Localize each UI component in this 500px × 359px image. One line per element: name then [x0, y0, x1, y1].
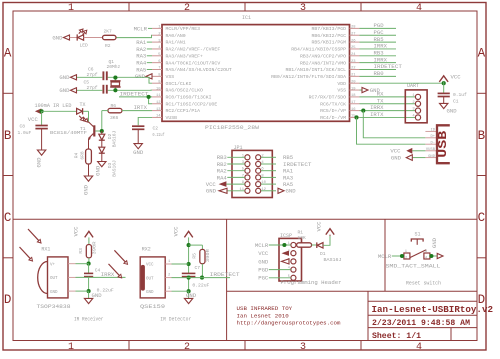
svg-text:TSOP34838: TSOP34838 — [37, 304, 71, 310]
svg-text:28: 28 — [351, 26, 356, 30]
svg-text:2: 2 — [184, 342, 190, 353]
svg-text:RX1: RX1 — [41, 246, 50, 252]
svg-text:RC6/TX/CK: RC6/TX/CK — [320, 101, 346, 107]
svg-text:19: 19 — [351, 87, 356, 91]
svg-text:VCC: VCC — [316, 221, 323, 232]
svg-text:RB1/AN10/INT1/SCK/SCL: RB1/AN10/INT1/SCK/SCL — [286, 67, 347, 73]
svg-text:VCC: VCC — [28, 116, 39, 123]
svg-text:GND: GND — [286, 188, 297, 195]
svg-text:IR Receiver: IR Receiver — [74, 317, 104, 323]
svg-text:VSS: VSS — [166, 74, 175, 80]
svg-text:GND: GND — [133, 149, 144, 156]
svg-text:http://dangerousprototypes.com: http://dangerousprototypes.com — [237, 320, 342, 327]
svg-text:GND: GND — [94, 165, 101, 176]
svg-text:2K7: 2K7 — [104, 28, 113, 34]
svg-text:GND: GND — [50, 291, 58, 295]
svg-text:3: 3 — [300, 342, 306, 353]
svg-text:12: 12 — [156, 101, 161, 105]
svg-text:18: 18 — [351, 94, 356, 98]
svg-text:GND: GND — [59, 87, 70, 94]
svg-text:RC0/T1OSO/T13CKI: RC0/T1OSO/T13CKI — [166, 95, 212, 101]
svg-text:VCC: VCC — [146, 264, 154, 268]
svg-text:R6: R6 — [111, 103, 117, 109]
svg-text:RC1/T1OSI/CCP2/UOE: RC1/T1OSI/CCP2/UOE — [166, 101, 218, 107]
svg-text:Ian-Lesnet-USBIRtoy.v2: Ian-Lesnet-USBIRtoy.v2 — [372, 304, 494, 315]
svg-text:OUT: OUT — [50, 277, 58, 281]
svg-text:21: 21 — [351, 74, 356, 78]
svg-text:C8: C8 — [20, 124, 26, 130]
svg-text:390R: 390R — [205, 249, 211, 262]
svg-text:25: 25 — [351, 46, 356, 50]
svg-text:OSC1/CLKI: OSC1/CLKI — [166, 81, 192, 87]
svg-text:1: 1 — [68, 342, 74, 353]
svg-text:GND: GND — [258, 258, 269, 265]
svg-text:GND: GND — [59, 74, 70, 81]
svg-text:RC5/D+/VP: RC5/D+/VP — [320, 108, 346, 114]
svg-text:RB7/KBI3/PGD: RB7/KBI3/PGD — [311, 26, 346, 32]
svg-text:26: 26 — [351, 39, 356, 43]
svg-text:R1: R1 — [298, 230, 304, 236]
svg-text:3K6: 3K6 — [110, 115, 119, 121]
svg-text:3: 3 — [300, 3, 306, 14]
svg-text:S1: S1 — [415, 231, 421, 237]
svg-text:JP1: JP1 — [234, 145, 243, 151]
svg-text:IRTX: IRTX — [370, 111, 384, 118]
svg-text:PGC: PGC — [374, 29, 385, 36]
svg-text:IR Detector: IR Detector — [160, 317, 191, 323]
svg-text:GND: GND — [82, 184, 89, 195]
svg-text:RX2: RX2 — [142, 246, 151, 252]
svg-text:C: C — [4, 211, 12, 225]
svg-text:RC4/D-/VM: RC4/D-/VM — [320, 115, 346, 121]
svg-text:2: 2 — [184, 3, 190, 14]
svg-text:TX: TX — [80, 102, 86, 108]
svg-text:100mA IR LED: 100mA IR LED — [35, 103, 72, 109]
svg-text:IRRX: IRRX — [374, 43, 388, 50]
svg-text:0.22uF: 0.22uF — [97, 288, 114, 294]
svg-text:MCLR: MCLR — [255, 242, 269, 249]
svg-text:RA2/AN2/VREF-/CVREF: RA2/AN2/VREF-/CVREF — [166, 47, 221, 53]
svg-text:V+: V+ — [50, 263, 56, 267]
svg-text:1.0uF: 1.0uF — [18, 130, 32, 136]
svg-text:IRTX: IRTX — [134, 104, 148, 111]
svg-text:R3: R3 — [78, 248, 84, 254]
svg-text:RA4: RA4 — [217, 174, 228, 181]
svg-text:VUSB: VUSB — [426, 148, 436, 152]
svg-text:R5: R5 — [191, 253, 197, 259]
svg-text:IRDETECT: IRDETECT — [120, 90, 150, 97]
svg-text:RB3/AN9/CCP2/VPO: RB3/AN9/CCP2/VPO — [300, 53, 346, 59]
svg-text:RA3/AN3/VREF+: RA3/AN3/VREF+ — [166, 53, 204, 59]
svg-text:C5: C5 — [84, 79, 90, 85]
svg-text:RB5: RB5 — [374, 36, 384, 43]
svg-text:Reset switch: Reset switch — [406, 281, 441, 287]
svg-text:RA6/OSC2/CLKO: RA6/OSC2/CLKO — [166, 88, 204, 94]
svg-text:QSE159: QSE159 — [140, 304, 165, 310]
svg-text:C2: C2 — [153, 126, 159, 132]
svg-text:20Mhz: 20Mhz — [107, 64, 121, 70]
svg-text:RA1/AN1: RA1/AN1 — [166, 40, 186, 46]
svg-text:MCLR: MCLR — [134, 25, 148, 32]
svg-text:RB5/KBI1/PGM: RB5/KBI1/PGM — [311, 40, 346, 46]
svg-text:D: D — [4, 293, 12, 307]
svg-text:C7: C7 — [195, 265, 201, 271]
svg-text:VCC: VCC — [172, 226, 179, 237]
svg-text:GND: GND — [186, 292, 197, 299]
svg-text:IRDETECT: IRDETECT — [374, 63, 403, 70]
svg-text:RB2/AN8/INT2/VMO: RB2/AN8/INT2/VMO — [300, 60, 346, 66]
svg-text:USB: USB — [437, 131, 450, 158]
svg-text:C1: C1 — [453, 99, 459, 105]
svg-text:27: 27 — [351, 32, 356, 36]
svg-text:24: 24 — [351, 53, 356, 57]
svg-text:D-: D- — [430, 141, 435, 145]
svg-text:13: 13 — [156, 108, 161, 112]
svg-text:20: 20 — [351, 80, 356, 84]
svg-text:10K: 10K — [298, 235, 307, 241]
svg-text:PGC: PGC — [258, 275, 269, 282]
svg-text:GND: GND — [428, 155, 436, 159]
svg-text:11: 11 — [156, 94, 161, 98]
svg-text:23: 23 — [351, 60, 356, 64]
svg-text:Ian Lesnet 2010: Ian Lesnet 2010 — [237, 312, 290, 319]
svg-text:4: 4 — [425, 257, 427, 261]
svg-text:R4: R4 — [74, 153, 80, 159]
svg-text:RA4/T0CKI/C1OUT/RCV: RA4/T0CKI/C1OUT/RCV — [166, 60, 221, 66]
svg-text:D+: D+ — [430, 135, 435, 139]
svg-text:2/23/2011 9:48:58 AM: 2/23/2011 9:48:58 AM — [372, 318, 470, 328]
svg-text:RB0/AN12/INT0/FLT0/SDI/SDA: RB0/AN12/INT0/FLT0/SDI/SDA — [271, 74, 346, 80]
svg-text:SMD_TACT_SMALL: SMD_TACT_SMALL — [386, 263, 441, 269]
svg-text:IRRX: IRRX — [374, 56, 388, 63]
svg-text:PGD: PGD — [258, 267, 269, 274]
svg-text:ID: ID — [430, 129, 435, 133]
svg-text:R2: R2 — [105, 43, 111, 49]
svg-text:BAS16J: BAS16J — [324, 257, 342, 263]
svg-text:0.22uf: 0.22uf — [153, 132, 165, 138]
svg-text:4: 4 — [416, 3, 422, 14]
svg-text:IC1: IC1 — [242, 15, 251, 21]
svg-text:27pf: 27pf — [87, 85, 98, 91]
svg-text:22: 22 — [351, 67, 356, 71]
svg-text:BC818/40MTF: BC818/40MTF — [50, 130, 87, 136]
svg-text:RA0/AN0: RA0/AN0 — [166, 33, 186, 39]
svg-text:OUT: OUT — [146, 277, 154, 281]
svg-text:14: 14 — [156, 115, 161, 119]
svg-text:27pf: 27pf — [87, 72, 98, 78]
svg-text:A: A — [478, 47, 486, 61]
svg-text:10: 10 — [156, 87, 161, 91]
svg-text:4: 4 — [416, 342, 422, 353]
svg-text:C4: C4 — [95, 268, 101, 274]
svg-text:Sheet: 1/1: Sheet: 1/1 — [372, 331, 421, 341]
svg-text:UART: UART — [407, 83, 419, 89]
svg-text:RA5/AN4/SS/HLVDIN/C2OUT: RA5/AN4/SS/HLVDIN/C2OUT — [166, 67, 232, 73]
svg-text:VSS: VSS — [337, 88, 346, 94]
svg-text:C6: C6 — [88, 67, 94, 73]
svg-text:B: B — [478, 129, 486, 143]
svg-text:A: A — [4, 47, 12, 61]
svg-text:VCC: VCC — [451, 73, 462, 80]
svg-text:GND: GND — [35, 157, 42, 168]
svg-text:GND: GND — [52, 34, 63, 41]
svg-text:2: 2 — [405, 257, 407, 261]
svg-text:1: 1 — [68, 3, 74, 14]
svg-text:6R8: 6R8 — [79, 151, 85, 160]
svg-text:VCC: VCC — [258, 250, 269, 257]
svg-text:17: 17 — [351, 101, 356, 105]
svg-text:GND: GND — [447, 107, 458, 114]
svg-text:ICSP: ICSP — [280, 233, 292, 239]
svg-text:GND: GND — [391, 154, 402, 161]
svg-text:B: B — [4, 129, 12, 143]
svg-text:Programming Header: Programming Header — [281, 280, 342, 286]
svg-text:IRDETECT: IRDETECT — [210, 271, 241, 278]
svg-text:VUSB: VUSB — [166, 115, 178, 121]
svg-text:BAS16J: BAS16J — [112, 160, 118, 177]
svg-text:RC7/RX/DT/SDO: RC7/RX/DT/SDO — [309, 95, 347, 101]
svg-text:RB4/AN11/KBI0/CSSPP: RB4/AN11/KBI0/CSSPP — [291, 47, 346, 53]
svg-text:RB0: RB0 — [374, 70, 385, 77]
svg-text:MCLR/VPP/RE3: MCLR/VPP/RE3 — [166, 26, 201, 32]
svg-text:GND: GND — [431, 237, 438, 248]
svg-text:390R: 390R — [91, 241, 97, 254]
svg-text:VCC: VCC — [72, 226, 79, 237]
svg-text:MCLR: MCLR — [378, 253, 392, 260]
svg-text:LED: LED — [80, 42, 89, 48]
svg-text:RC2/CCP1/P1A: RC2/CCP1/P1A — [166, 108, 201, 114]
svg-text:GND: GND — [135, 73, 146, 80]
svg-text:C: C — [478, 211, 486, 225]
svg-text:IRRX: IRRX — [101, 271, 115, 278]
svg-text:VDD: VDD — [337, 81, 346, 87]
svg-text:16: 16 — [351, 108, 356, 112]
svg-text:0.1uf: 0.1uf — [453, 92, 467, 98]
svg-text:USB INFRARED TOY: USB INFRARED TOY — [237, 305, 293, 312]
svg-text:BAS16J: BAS16J — [112, 131, 118, 148]
svg-text:7: 7 — [158, 67, 160, 71]
svg-text:PGD: PGD — [374, 22, 385, 29]
svg-text:GND: GND — [206, 188, 217, 195]
svg-text:RB3: RB3 — [374, 50, 384, 57]
svg-text:0.22uF: 0.22uF — [192, 283, 209, 289]
svg-text:D1: D1 — [320, 251, 326, 257]
svg-text:PIC18F2550_28W: PIC18F2550_28W — [205, 124, 260, 131]
svg-text:RB6/KBI2/PGC: RB6/KBI2/PGC — [311, 33, 346, 39]
svg-text:GND: GND — [146, 291, 154, 295]
